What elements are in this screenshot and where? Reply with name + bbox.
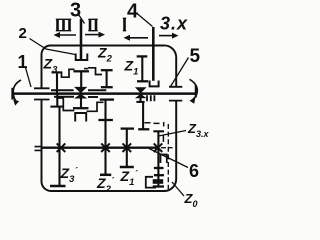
gear Z1' bottom T-bar [120,166,134,169]
leader label 4 [137,14,153,27]
svg-text:Z3.x: Z3.x [187,121,209,139]
svg-text:Z1´: Z1´ [120,168,139,188]
gear Z2' top bar [88,96,98,98]
clutch X bowtie right on main shaft [135,87,147,98]
label III [56,19,71,30]
arrow II right [85,32,105,38]
output shaft end bar [195,85,197,98]
gear Z1 top T-bar [137,55,148,57]
gear Z2 hub bar [101,86,113,88]
gear Z1 lower rim bar [138,128,149,130]
gear Z2' stem [104,99,106,174]
leader label Z3x [159,131,187,137]
clutch block stem [80,71,82,88]
leader label 3 [79,15,85,24]
leader label 1 [26,68,32,88]
countershaft dashed extension [161,147,173,149]
gear Z2' bottom T-bar [100,174,111,177]
label I [123,18,126,30]
svg-text:Z2´: Z2´ [96,175,115,195]
arrow III left [54,32,77,38]
svg-text:3: 3 [70,0,81,22]
gear Z0 second bar [154,174,164,176]
gear Z2 stem [106,70,108,87]
reverse gear T-bar [153,130,164,132]
reverse gear stem [157,131,159,187]
gear Z2 dog step [88,68,102,75]
gear Z2' dog step [87,102,104,111]
svg-text:Z1: Z1 [124,57,139,77]
label II [88,19,97,30]
dog tooth dash line right of sleeve [84,68,88,70]
clutch block T-bar above X [73,70,89,72]
arrow 3x right [159,33,179,39]
main shaft [13,92,197,95]
hub bar left below shaft [54,96,74,98]
gear Z1 lower stem [142,102,144,129]
reverse gear phantom dashes [145,122,160,125]
gear Z3' bottom T-bar [50,185,66,188]
gear Z3' fixed joint X [57,143,66,152]
shift shaft 3 (lever III-II) [80,19,83,60]
gear Z0 thick rim bar [153,179,164,184]
svg-text:Z0: Z0 [184,191,198,208]
gear Z3 stem [56,72,58,94]
clutch lower stem [80,97,82,108]
leader label 6 [149,149,188,168]
hub bar left above shaft [51,89,106,91]
gear Z3' stem [57,94,59,186]
gear Z2' middle bar [98,119,113,121]
shift shaft 4 (lever I-3x) [152,27,155,81]
svg-text:3.x: 3.x [160,14,188,34]
svg-text:Z3´: Z3´ [60,165,79,185]
right clutch lower T-bar [136,101,144,103]
dash-dot axis line reverse [167,124,169,189]
clutch lower T-bar [73,107,89,109]
gear Z3 dog step [62,69,75,77]
gear Z3 top T-bar [52,71,63,73]
leader label 5 [171,58,189,87]
reverse fork bracket [146,177,156,188]
svg-text:4: 4 [127,1,139,23]
gear Z0 top bar [154,167,164,169]
gear Z1' top T-bar [121,127,134,129]
gear Z3 lower T-bar [50,106,63,108]
gear Z2 top T-bar [101,69,113,71]
lower cup under clutch [75,113,86,122]
rotation arrow left [13,80,21,106]
bearing output shaft wall ticks [169,87,182,101]
svg-text:2: 2 [19,25,27,42]
bearing input shaft wall ticks [34,88,50,99]
reverse fixed joint X countershaft end [154,143,163,152]
rotation arrow right [189,79,197,104]
right clutch lower stem [139,97,141,102]
countershaft [42,147,160,149]
gear Z1 stem [141,56,143,81]
sleeve cup on shaft 4 [150,81,159,87]
leader label Z0 [172,182,184,196]
input shaft end bar [11,88,13,100]
leader label 2 [30,39,76,55]
reverse cup below X [161,155,167,164]
reverse gear phantom side dash [162,122,164,142]
svg-text:6: 6 [189,161,199,181]
svg-text:5: 5 [190,46,201,67]
svg-text:Z2: Z2 [97,45,113,65]
gear Z1' stem [126,129,128,167]
bearing countershaft left ticks [35,147,43,151]
gear Z0 bottom bar [153,185,164,187]
gear Z1' fixed joint X [123,143,132,152]
svg-text:1: 1 [18,52,28,72]
clutch X bowtie on main shaft [74,87,87,99]
gear Z2' fixed joint X [101,143,110,152]
gear Z1 hub bar [137,80,148,82]
gear Z3 lower dog step [57,98,74,111]
arrow I left [124,35,149,41]
housing gearbox case [41,45,176,191]
sliding sleeve cup on shaft 3 [76,54,88,61]
lower comb teeth right clutch [147,95,154,101]
svg-text:Z3: Z3 [43,56,59,76]
